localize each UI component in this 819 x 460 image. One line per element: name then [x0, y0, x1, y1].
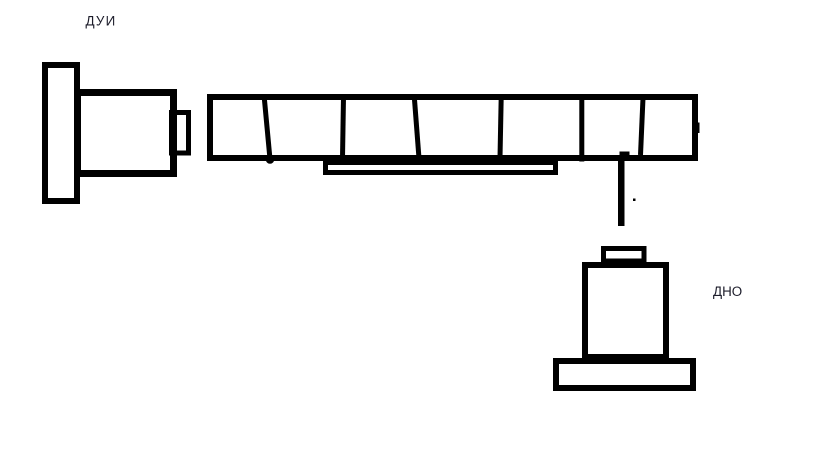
- wire junction blob: [620, 152, 630, 158]
- stray dot: [633, 199, 636, 202]
- sensor DUI body: [78, 93, 174, 174]
- svg-text:ДНО: ДНО: [713, 284, 742, 299]
- divider 2: [343, 97, 344, 158]
- sensor DUI nub: [172, 113, 189, 154]
- beam right edge jog: [697, 123, 700, 134]
- divider 1: [264, 97, 274, 164]
- svg-text:ДУИ: ДУИ: [86, 14, 117, 29]
- divider 6: [641, 98, 644, 155]
- target DNO cap: [604, 249, 645, 262]
- divider 4: [500, 97, 501, 158]
- divider 5: [579, 97, 584, 162]
- target DNO base: [556, 361, 693, 388]
- plate under beam: [326, 163, 556, 173]
- divider 3: [414, 97, 419, 157]
- target DNO body: [585, 265, 666, 357]
- beam outline: [210, 97, 695, 158]
- sensor DUI flange: [45, 65, 77, 201]
- wire drop line: [618, 155, 625, 226]
